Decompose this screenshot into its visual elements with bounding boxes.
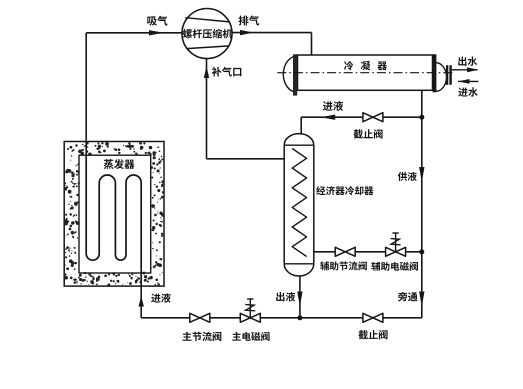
wire suction horizontal (86, 32, 182, 34)
arrow feed up into evaporator (139, 296, 144, 307)
label 经济器冷却器 (economizer cooler) (316, 186, 373, 195)
wire into economizer top (300, 117, 302, 136)
compressor bottom chord (186, 46, 229, 49)
label 供液 (supply) (398, 172, 417, 181)
node junction condenser outlet (419, 115, 424, 120)
water outlet stub (452, 69, 478, 71)
label 截止阀 (stop valve) (353, 129, 382, 138)
label 出水 (water out) (458, 57, 477, 66)
condenser left end plate (293, 54, 297, 95)
compressor top chord (185, 18, 229, 22)
stop valve lower 截止阀 (363, 313, 383, 322)
label 进水 (water in) (458, 87, 478, 96)
node junction economizer outlet (297, 315, 302, 320)
evaporator coil serpentine (86, 155, 141, 286)
label 进液 bottom (liquid in) (151, 293, 171, 302)
label 截止阀 lower (stop valve) (358, 330, 387, 339)
wire injection vertical from compressor (206, 58, 208, 158)
main throttle valve 主节流阀 (190, 313, 210, 322)
condenser right end plate (433, 54, 437, 92)
arrow discharge flow (240, 30, 254, 35)
wire economizer outlet vertical (299, 276, 301, 318)
arrow water in (458, 79, 470, 84)
label 排气 (discharge) (239, 15, 260, 25)
wire evaporator feed vertical (140, 286, 142, 318)
arrow liquid out down (297, 292, 302, 307)
wire supply rail vertical upper (421, 117, 423, 252)
stop valve upper 截止阀 (363, 113, 383, 122)
label 辅助节流阀 (aux throttle valve) (320, 261, 367, 270)
label 进液 (liquid in) (323, 101, 343, 111)
label 旁通 (bypass) (398, 292, 418, 302)
label 补气口 (injection port) (212, 67, 242, 77)
wire auxiliary horizontal (314, 251, 422, 253)
condenser right flange bars (446, 65, 448, 85)
wire discharge vertical into condenser (311, 33, 313, 56)
node junction auxiliary/rail (419, 249, 424, 254)
auxiliary solenoid valve 辅助电磁阀 (386, 247, 406, 256)
arrow suction flow (149, 30, 164, 35)
wire bottom main horizontal (141, 317, 422, 319)
label 辅助电磁阀 (aux solenoid valve) (371, 262, 418, 271)
wire suction vertical from evaporator (85, 33, 87, 156)
economizer shell 经济器冷却器 (284, 145, 314, 264)
label 蒸发器 (evaporator) (104, 159, 135, 169)
condenser right dome (436, 63, 446, 91)
wire liquid supply horizontal to economizer (301, 116, 422, 118)
condenser body 冷凝器 (298, 55, 433, 90)
arrow water out (467, 67, 479, 72)
wire injection horizontal to economizer (207, 158, 285, 160)
label 主电磁阀 (main solenoid valve) (232, 332, 269, 341)
wire bypass rail vertical lower (421, 252, 423, 318)
label 螺杆压缩机 (screw compressor) (183, 29, 233, 39)
water inlet stub (458, 80, 478, 82)
condenser centerline (277, 72, 453, 74)
wire condenser outlet vertical (421, 90, 423, 117)
label 出液 (liquid out) (276, 292, 295, 301)
evaporator outer wall (64, 142, 164, 287)
label 吸气 (suction) (147, 16, 167, 26)
economizer internal coil zigzag (292, 149, 306, 257)
compressor circle 螺杆压缩机 (182, 9, 232, 59)
main solenoid valve 主电磁阀 (240, 313, 260, 322)
label 冷凝器 (condenser) (344, 61, 387, 70)
arrow injection into compressor (204, 66, 209, 78)
auxiliary throttle valve 辅助节流阀 (335, 247, 355, 256)
arrow liquid into economizer (321, 115, 336, 120)
evaporator inner wall (79, 155, 151, 273)
label 主节流阀 (main throttle valve) (183, 332, 222, 341)
arrow bypass flow down (419, 292, 424, 307)
wire discharge horizontal (232, 32, 312, 34)
evaporator insulation stipple (63, 141, 164, 286)
arrow supply flow down (419, 167, 424, 182)
condenser left dome (283, 56, 296, 92)
